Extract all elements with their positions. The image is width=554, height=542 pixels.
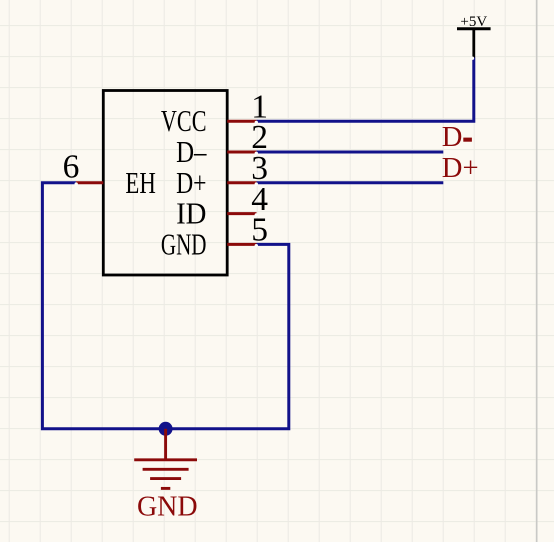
svg-text:5: 5 <box>251 212 268 249</box>
ground bar 1 <box>134 458 197 461</box>
sheet border line <box>536 0 538 542</box>
svg-text:D+: D+ <box>442 153 479 184</box>
svg-text:D: D <box>442 122 463 153</box>
pin 1 stub <box>227 120 256 123</box>
ground bar 4 <box>161 487 170 490</box>
svg-text:D–: D– <box>176 135 207 169</box>
svg-text:GND: GND <box>161 227 207 261</box>
ground bar 3 <box>150 477 181 480</box>
svg-text:+5V: +5V <box>460 14 487 30</box>
pin 5 stub <box>227 243 256 246</box>
pin 4 stub <box>227 212 256 215</box>
svg-text:ID: ID <box>176 197 206 231</box>
svg-text:VCC: VCC <box>161 104 207 138</box>
pin 3 stub <box>227 181 256 184</box>
power symbol +5V bar <box>457 29 491 58</box>
svg-text:EH: EH <box>125 166 155 200</box>
IC component box U1 <box>103 91 227 276</box>
svg-text:D+: D+ <box>176 166 206 200</box>
wire D- <box>257 151 444 154</box>
junction dot <box>159 422 173 436</box>
svg-text:6: 6 <box>63 148 80 185</box>
pin 2 stub <box>227 151 256 154</box>
wire VCC to +5V <box>257 58 474 122</box>
pin 6 stub <box>76 181 103 184</box>
wire GND loop: pin6 left, down, bottom, up to pin5 <box>42 183 288 429</box>
pin hotspot dots <box>75 57 475 248</box>
ground bar 2 <box>143 468 189 471</box>
svg-text:GND: GND <box>137 492 198 523</box>
wire D+ <box>257 181 444 184</box>
ground symbol stem <box>164 429 167 460</box>
